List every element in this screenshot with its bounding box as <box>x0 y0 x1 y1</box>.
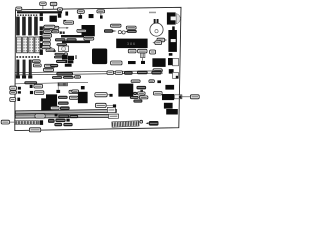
external label bottom-left <box>1 120 9 124</box>
comp under jumper <box>141 61 145 64</box>
bot dark 1 <box>48 119 55 123</box>
chip F <box>165 85 174 90</box>
edge label L2 <box>10 91 17 94</box>
chip E <box>152 58 165 67</box>
bus label dark long <box>56 72 73 76</box>
dark label lower-left <box>50 64 58 67</box>
label below comb <box>29 128 40 132</box>
keyboard controller chip B <box>78 92 88 103</box>
white box row4 <box>43 38 51 41</box>
battery label <box>126 26 136 29</box>
oval label with arrow <box>42 46 50 49</box>
oval label small <box>46 49 55 52</box>
chipset label B <box>138 49 147 53</box>
cluster dark label 6 <box>133 100 142 103</box>
chip label row1a <box>43 26 50 29</box>
tick IO1 <box>109 94 112 97</box>
chipset label C <box>150 50 156 54</box>
dark label near cluster <box>56 60 66 63</box>
edge label L3 <box>10 98 16 102</box>
oscillator label right <box>155 41 162 45</box>
component U10 <box>79 15 83 19</box>
external label right <box>190 95 199 99</box>
parallel port blob <box>176 76 179 79</box>
serial port block <box>168 58 173 65</box>
solder pad row 2 <box>16 56 39 58</box>
bot dark 2 <box>55 119 65 123</box>
labels above chip D <box>131 80 140 83</box>
jumper strip 2 <box>62 41 90 44</box>
chipset label A <box>128 49 136 53</box>
power connector tick <box>172 26 175 30</box>
SIPP memory slots with base caps <box>16 60 33 79</box>
component U11 <box>89 14 94 18</box>
label EPROM b <box>69 96 78 99</box>
buffer chip column <box>40 12 43 55</box>
battery <box>150 19 163 36</box>
power label arrow <box>157 38 165 42</box>
chip label row3 <box>42 34 52 37</box>
ISA slot 2 <box>15 114 118 119</box>
label under U13 <box>84 37 94 40</box>
chip label row2a <box>43 30 51 33</box>
label right of EPROM 1 <box>69 90 78 93</box>
serial port bracket <box>173 58 179 65</box>
label right of U13 <box>111 24 122 27</box>
ISA slot 1 <box>15 107 116 114</box>
DIP switch comb <box>112 121 139 127</box>
cluster dark label 2 <box>133 92 137 95</box>
label under chip E <box>153 69 162 72</box>
bus dark seg 3 <box>151 71 161 75</box>
keyboard DIN connector <box>167 12 180 24</box>
coprocessor label <box>77 29 86 32</box>
small comp near bus <box>118 71 122 74</box>
jumper label JP2 <box>50 2 57 5</box>
header line 2 <box>15 82 88 84</box>
tick IO2 <box>113 104 116 107</box>
keylock comb <box>15 121 39 125</box>
capacitor pair <box>118 30 121 33</box>
cluster link <box>140 90 143 92</box>
bot comp <box>66 119 69 122</box>
chip D big <box>118 84 133 97</box>
label M2 <box>34 91 44 95</box>
oscillator label on top-left edge <box>16 7 22 10</box>
label with stem U10 <box>77 10 84 13</box>
chip label row2b <box>52 30 59 33</box>
dark label row6 <box>55 53 65 56</box>
chip I <box>166 109 178 115</box>
edge comp L1 <box>18 87 21 90</box>
keyboard controller label dark b <box>66 38 76 41</box>
slot dark label <box>58 114 69 118</box>
parallel port block <box>169 69 174 74</box>
battery label dark <box>127 30 137 33</box>
keyboard controller label dark a <box>55 38 66 41</box>
cluster label 3 <box>138 92 146 95</box>
wire to external label <box>182 96 190 98</box>
jumper label JP1 <box>40 2 47 5</box>
port tick <box>169 53 173 56</box>
edge label L1 <box>10 86 17 90</box>
bus row2 light c <box>75 76 81 79</box>
edge comp L3 <box>17 98 20 101</box>
coprocessor socket U13 <box>82 25 95 36</box>
cache SRAM cluster <box>62 55 77 67</box>
small component pair <box>60 31 62 34</box>
chip label row1b with pointer <box>51 26 58 29</box>
keyboard BIOS socket <box>59 46 69 52</box>
pin header strip <box>17 11 62 13</box>
white box row5 <box>43 42 51 46</box>
comp above chip B <box>81 86 85 89</box>
parallel bracket <box>173 72 179 78</box>
slot label white <box>35 114 45 118</box>
board name text <box>149 12 156 14</box>
dark label row7 <box>54 56 64 59</box>
arrow to comb label <box>146 122 149 124</box>
cluster label right <box>153 92 162 96</box>
label above D right <box>149 80 155 83</box>
label with stem U12 <box>97 10 105 13</box>
dark label pointer <box>104 29 113 33</box>
bus row2 dark b <box>63 76 74 79</box>
dark label row5 <box>57 43 68 46</box>
oval label lower-left a <box>44 64 54 67</box>
small tick <box>54 50 56 52</box>
oval label IO1 <box>95 93 107 97</box>
BIOS label <box>64 21 74 24</box>
chip U8 <box>58 14 62 18</box>
comp M2 <box>30 91 33 94</box>
label above chip B <box>72 90 79 93</box>
local bus line <box>15 71 163 75</box>
wire <box>42 5 44 9</box>
chipset U14 <box>116 39 147 49</box>
comb label <box>149 121 159 126</box>
dark label EPROM a <box>58 96 68 99</box>
oval label IO2 <box>95 103 106 107</box>
tiny box right of comb <box>140 120 143 123</box>
label bank0 <box>32 60 40 63</box>
white label on EPROM <box>50 106 59 109</box>
svg-text:3 8 6: 3 8 6 <box>127 41 136 46</box>
SIMM memory bank slots <box>16 17 38 36</box>
CPU 386 <box>92 49 107 65</box>
solder pad row <box>17 14 37 16</box>
bus white box 2 <box>115 71 122 75</box>
slot dark label right <box>70 115 79 118</box>
label bank1 <box>33 64 41 67</box>
bus row2 dark a <box>52 76 62 79</box>
comp right of comb <box>40 120 44 125</box>
dark label EPROM c <box>58 102 69 105</box>
white box row7 <box>64 56 68 59</box>
board outline <box>15 7 181 130</box>
label M1 <box>34 84 43 88</box>
jumper block vertical <box>141 53 145 61</box>
black seg left of jumper <box>128 61 136 64</box>
small part <box>63 20 66 24</box>
edge comp L2 <box>18 91 21 93</box>
comp M1 <box>30 85 33 88</box>
bus dark seg 1 <box>124 71 133 75</box>
comb on line2 <box>58 83 68 86</box>
white box row6 <box>64 53 67 55</box>
comp on line2 end <box>56 90 60 93</box>
connector box right <box>174 95 182 99</box>
resonator <box>65 12 68 16</box>
white label mid <box>111 61 122 65</box>
cluster dark label 1 <box>137 86 147 90</box>
chip U7 <box>50 16 57 22</box>
wire <box>53 6 55 10</box>
BIOS EPROM <box>41 94 57 111</box>
cluster label 5 <box>139 96 148 99</box>
tiny comp above D <box>157 80 161 83</box>
bot dark 3 <box>54 123 62 126</box>
chip H <box>164 103 173 109</box>
cluster dark label 4 <box>130 96 139 99</box>
chip G <box>162 94 174 100</box>
slot tick <box>55 114 58 117</box>
bus white box 1 <box>107 71 114 75</box>
oval label lower-left b <box>43 68 53 71</box>
DRAM DIP sockets <box>17 37 40 53</box>
bus dark seg 2 <box>137 71 148 75</box>
power connector P8/P9 <box>168 30 177 52</box>
dark label EPROM d <box>60 106 70 110</box>
dark label on line2 <box>24 81 37 84</box>
connector label on top edge <box>58 8 63 11</box>
jumper strip long <box>61 35 84 38</box>
label top1 <box>44 25 55 28</box>
component U12 <box>100 15 103 18</box>
bot dark 4 <box>63 123 72 126</box>
